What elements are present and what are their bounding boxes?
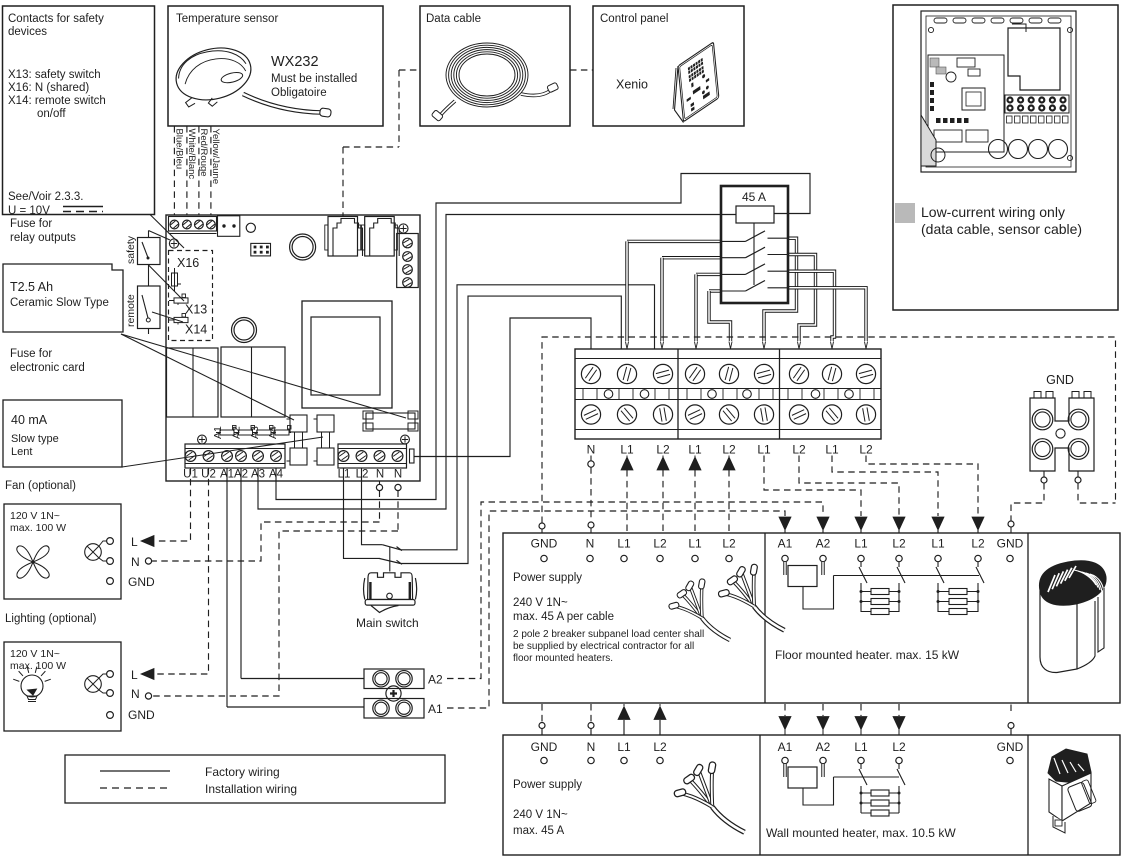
svg-text:Main switch: Main switch xyxy=(356,616,419,630)
svg-text:L1: L1 xyxy=(688,537,702,551)
svg-text:Slow type: Slow type xyxy=(11,433,59,445)
svg-text:Data cable: Data cable xyxy=(426,13,481,25)
svg-text:Power supply: Power supply xyxy=(513,572,582,584)
svg-text:A2: A2 xyxy=(234,469,248,481)
svg-text:max. 45 A per cable: max. 45 A per cable xyxy=(513,611,614,623)
svg-text:Temperature sensor: Temperature sensor xyxy=(176,13,278,25)
svg-text:GND: GND xyxy=(128,708,155,722)
svg-text:Control panel: Control panel xyxy=(600,13,668,25)
svg-text:Installation wiring: Installation wiring xyxy=(205,782,297,796)
svg-text:Wall mounted heater, max. 10.5: Wall mounted heater, max. 10.5 kW xyxy=(766,826,956,840)
svg-text:Must be installed: Must be installed xyxy=(271,73,357,85)
svg-text:WX232: WX232 xyxy=(271,54,319,70)
svg-text:Factory wiring: Factory wiring xyxy=(205,765,280,779)
svg-text:L2: L2 xyxy=(656,443,670,457)
svg-text:240 V 1N~: 240 V 1N~ xyxy=(513,597,568,609)
svg-text:A1: A1 xyxy=(220,469,234,481)
svg-text:L1: L1 xyxy=(854,537,868,551)
svg-text:be supplied by electrical cont: be supplied by electrical contractor for… xyxy=(513,641,694,652)
svg-text:L2: L2 xyxy=(722,443,736,457)
svg-text:L1: L1 xyxy=(688,443,702,457)
svg-text:Xenio: Xenio xyxy=(616,78,648,92)
svg-text:120 V 1N~: 120 V 1N~ xyxy=(10,648,60,660)
svg-text:L1: L1 xyxy=(931,537,945,551)
svg-text:L1: L1 xyxy=(825,443,839,457)
svg-text:L1: L1 xyxy=(854,740,868,754)
svg-text:40 mA: 40 mA xyxy=(11,413,48,427)
svg-text:X13: X13 xyxy=(185,303,207,317)
svg-text:devices: devices xyxy=(8,26,47,38)
svg-text:Low-current wiring only: Low-current wiring only xyxy=(921,204,1065,220)
svg-text:45 A: 45 A xyxy=(742,190,766,204)
svg-text:max. 45 A: max. 45 A xyxy=(513,825,564,837)
svg-text:L2: L2 xyxy=(892,537,906,551)
svg-text:on/off: on/off xyxy=(37,108,66,120)
svg-text:Fuse for: Fuse for xyxy=(10,348,52,360)
svg-text:Floor mounted heater. max. 15: Floor mounted heater. max. 15 kW xyxy=(775,648,960,662)
svg-text:L1: L1 xyxy=(617,740,631,754)
svg-text:Blue/Bleu: Blue/Bleu xyxy=(173,129,184,170)
svg-text:X13: safety switch: X13: safety switch xyxy=(8,69,101,81)
svg-text:Fan (optional): Fan (optional) xyxy=(5,480,76,492)
svg-text:A4: A4 xyxy=(269,469,284,481)
svg-text:Red/Rouge: Red/Rouge xyxy=(198,129,209,177)
svg-text:floor mounted heaters.: floor mounted heaters. xyxy=(513,653,613,664)
svg-text:L1: L1 xyxy=(338,469,351,481)
svg-text:L: L xyxy=(131,668,138,682)
svg-text:X14: remote switch: X14: remote switch xyxy=(8,95,106,107)
svg-text:GND: GND xyxy=(997,740,1024,754)
svg-text:L1: L1 xyxy=(620,443,634,457)
svg-text:N: N xyxy=(587,443,596,457)
svg-text:safety: safety xyxy=(125,235,137,264)
svg-text:Lent: Lent xyxy=(11,446,32,458)
svg-text:A2: A2 xyxy=(428,673,443,687)
svg-text:GND: GND xyxy=(531,740,558,754)
svg-text:2 pole 2 breaker subpanel load: 2 pole 2 breaker subpanel load center sh… xyxy=(513,629,704,640)
svg-text:240 V 1N~: 240 V 1N~ xyxy=(513,809,568,821)
svg-text:L1: L1 xyxy=(757,443,771,457)
svg-text:L2: L2 xyxy=(792,443,806,457)
svg-text:L1: L1 xyxy=(617,537,631,551)
svg-text:120 V 1N~: 120 V 1N~ xyxy=(10,510,60,522)
svg-text:relay outputs: relay outputs xyxy=(10,232,76,244)
svg-text:N: N xyxy=(586,537,595,551)
svg-text:max. 100 W: max. 100 W xyxy=(10,660,66,672)
svg-text:A1: A1 xyxy=(778,537,793,551)
svg-text:L2: L2 xyxy=(356,469,369,481)
svg-text:Lighting (optional): Lighting (optional) xyxy=(5,613,97,625)
svg-text:N: N xyxy=(131,555,140,569)
svg-text:A3: A3 xyxy=(251,469,265,481)
svg-text:N: N xyxy=(587,740,596,754)
svg-text:L: L xyxy=(131,535,138,549)
svg-text:U = 10V: U = 10V xyxy=(8,205,50,217)
svg-text:L2: L2 xyxy=(722,537,736,551)
svg-text:A2: A2 xyxy=(816,537,831,551)
svg-text:max. 100 W: max. 100 W xyxy=(10,522,66,534)
svg-text:U2: U2 xyxy=(201,469,216,481)
svg-text:Fuse for: Fuse for xyxy=(10,218,52,230)
svg-text:A1: A1 xyxy=(778,740,793,754)
svg-text:Ceramic Slow Type: Ceramic Slow Type xyxy=(10,297,109,309)
svg-text:Contacts for safety: Contacts for safety xyxy=(8,13,104,25)
svg-text:N: N xyxy=(394,469,402,481)
svg-text:GND: GND xyxy=(997,537,1024,551)
svg-text:L2: L2 xyxy=(892,740,906,754)
svg-text:X16: X16 xyxy=(177,256,199,270)
svg-text:X16: N (shared): X16: N (shared) xyxy=(8,82,89,94)
svg-text:Power supply: Power supply xyxy=(513,779,582,791)
svg-text:GND: GND xyxy=(531,537,558,551)
svg-text:A2: A2 xyxy=(816,740,831,754)
svg-text:N: N xyxy=(131,687,140,701)
svg-text:GND: GND xyxy=(1046,373,1074,387)
svg-text:L2: L2 xyxy=(971,537,985,551)
svg-text:White/Blanc: White/Blanc xyxy=(186,129,197,180)
svg-text:remote: remote xyxy=(125,294,137,327)
svg-text:See/Voir 2.3.3.: See/Voir 2.3.3. xyxy=(8,191,83,203)
svg-text:(data cable, sensor cable): (data cable, sensor cable) xyxy=(921,221,1082,237)
svg-text:X14: X14 xyxy=(185,323,207,337)
svg-text:L2: L2 xyxy=(859,443,873,457)
svg-text:L2: L2 xyxy=(653,537,667,551)
svg-text:GND: GND xyxy=(128,575,155,589)
svg-text:U1: U1 xyxy=(183,469,198,481)
svg-text:N: N xyxy=(376,469,384,481)
svg-text:L2: L2 xyxy=(653,740,667,754)
svg-text:electronic card: electronic card xyxy=(10,362,85,374)
svg-text:A1: A1 xyxy=(428,702,443,716)
svg-text:T2.5 Ah: T2.5 Ah xyxy=(10,280,53,294)
svg-text:Obligatoire: Obligatoire xyxy=(271,87,327,99)
svg-text:Yellow/Jaune: Yellow/Jaune xyxy=(210,129,221,185)
